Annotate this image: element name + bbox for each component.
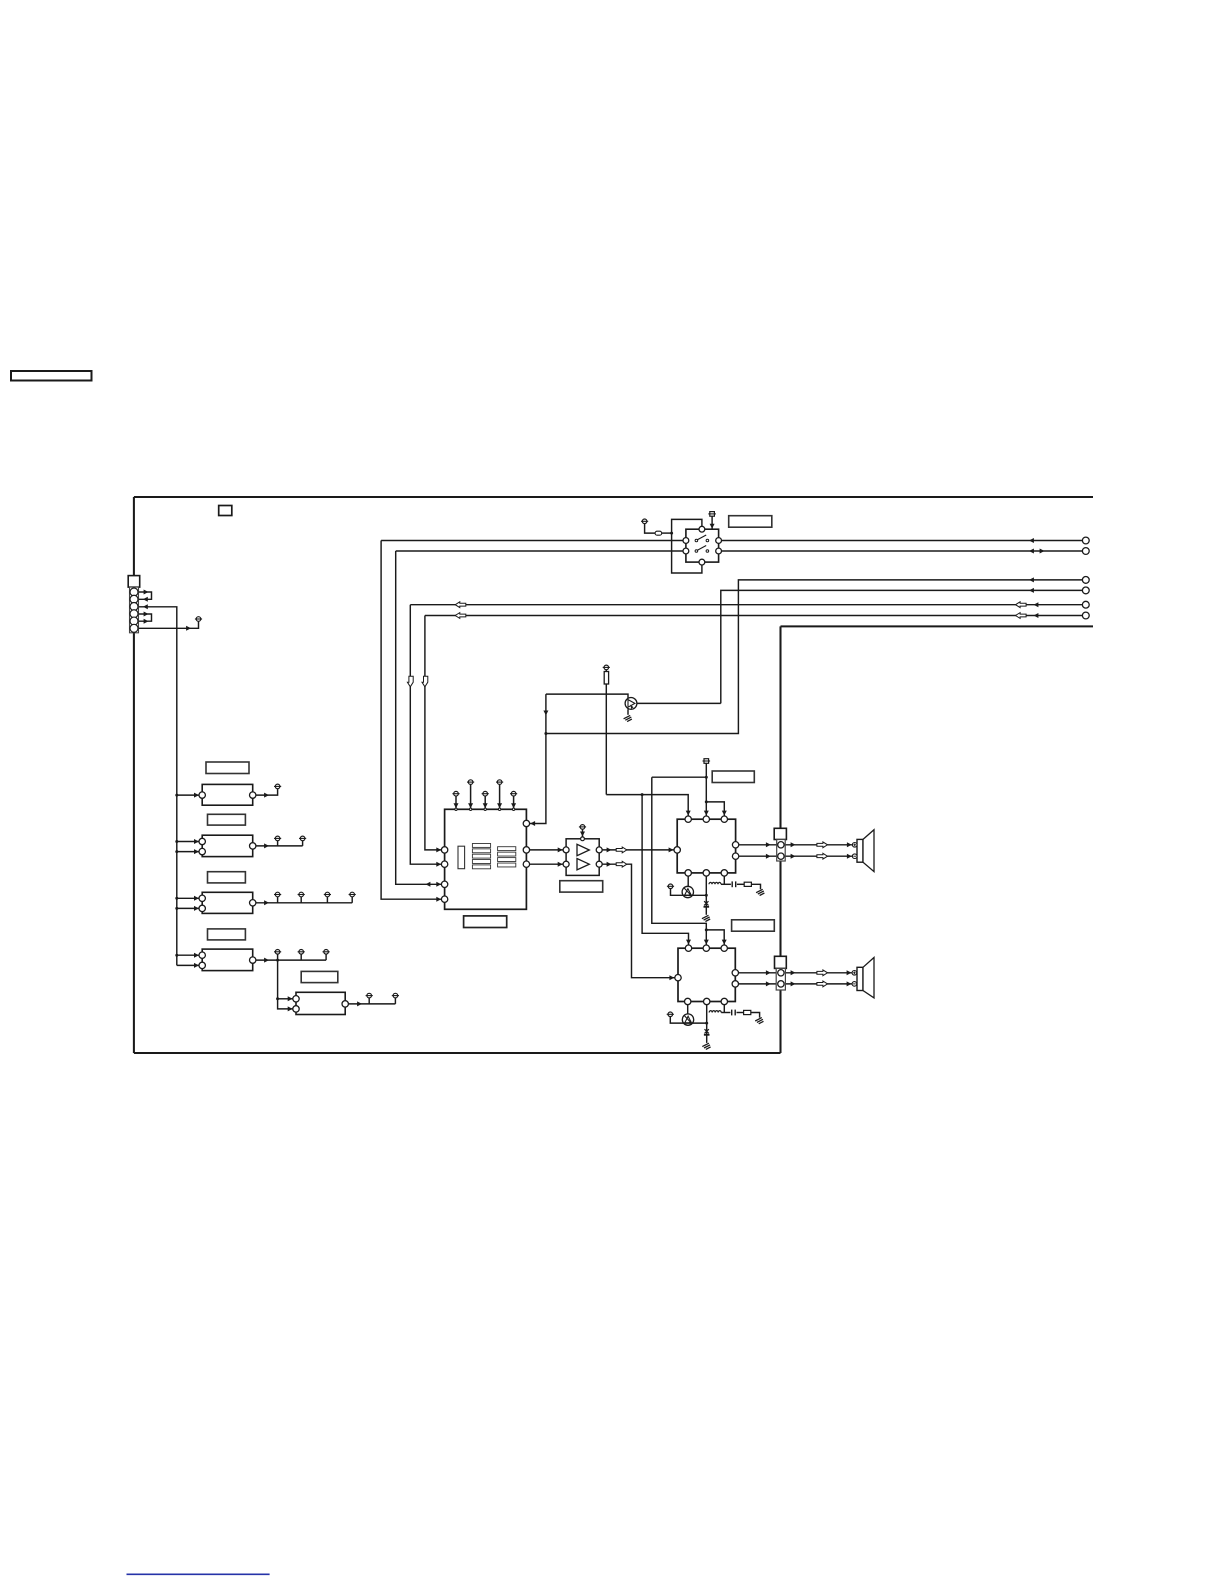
wire IC3 out+ to CN2 bbox=[739, 844, 778, 846]
wire line3 edge terminal to mute node bbox=[546, 580, 1083, 734]
wire TP10 stem bbox=[300, 954, 302, 960]
label box FL3 bbox=[208, 872, 246, 883]
wire FL4 output bbox=[255, 959, 326, 961]
variable resistor VR1 bbox=[682, 886, 693, 897]
wire FL4 out to FL5 input b bbox=[278, 960, 293, 1009]
wire TP3 stem bbox=[277, 841, 279, 846]
hollow flow arrows bbox=[455, 602, 466, 608]
wire C3 to R3 bbox=[737, 1012, 744, 1014]
wire TP13 stem bbox=[394, 998, 396, 1004]
wire B+ TP16 down to IC3 top-center pin bbox=[705, 763, 707, 816]
wire to FL5 input a bbox=[278, 998, 293, 1000]
test point IC1-b bbox=[467, 780, 474, 785]
wire IC4 out- to CN3 bbox=[739, 983, 778, 985]
test point TP7 bbox=[324, 892, 331, 897]
wire L1 to C1 bbox=[721, 883, 731, 885]
inductor L2 bbox=[709, 1011, 721, 1013]
wire CN2 to SP1 + bbox=[784, 844, 852, 846]
wire Q1 base from mute node bbox=[546, 694, 628, 698]
label box IC1 bbox=[464, 916, 507, 928]
wire line6 drop to IC1 pin1 bbox=[425, 616, 442, 850]
footer rule bbox=[127, 1573, 270, 1575]
wire line2 drop to IC1 pin3 bbox=[396, 551, 442, 884]
wire line5 drop to IC1 pin2 bbox=[410, 605, 441, 865]
wire R2 to ground bbox=[752, 884, 761, 889]
test point IC1-e bbox=[510, 791, 517, 796]
test point TP4 bbox=[299, 836, 306, 841]
power amp IC3 (channel 1) bbox=[674, 816, 739, 876]
wire branch to IC4 top-left pin bbox=[642, 795, 688, 945]
label box IC2 bbox=[560, 881, 603, 892]
test point IC1-c bbox=[482, 791, 489, 796]
test point TP10 bbox=[298, 950, 305, 955]
op-amp IC2 (dual buffer) bbox=[563, 837, 602, 876]
wire line6 to edge terminal bbox=[425, 615, 1083, 617]
inductor L1 bbox=[709, 882, 721, 884]
wire bus to FL2 input b bbox=[177, 851, 199, 853]
ground R2 bbox=[756, 889, 764, 895]
wire IC1 out L to IC2 in L bbox=[530, 849, 563, 851]
wire line2 left segment to SW1 bbox=[396, 550, 683, 552]
wire SW1 common frame loop bbox=[672, 519, 702, 573]
wire bus to FL4 input b bbox=[177, 964, 199, 966]
wire TP7 stem bbox=[326, 897, 328, 903]
wire bus to FL2 input a bbox=[177, 841, 199, 843]
wire Q1 emitter to ground bbox=[627, 709, 629, 715]
test point TP19 (VR2) bbox=[667, 1012, 674, 1017]
wire TP5 stem bbox=[277, 897, 279, 903]
test point TP11 bbox=[323, 950, 330, 955]
label box FL4 bbox=[208, 929, 246, 940]
wire CN1 pin6 to TP1 bbox=[138, 622, 198, 629]
capacitor C3 bbox=[732, 1010, 736, 1016]
wire TP14 to bead FB1 bbox=[645, 524, 656, 533]
filter block FL3 bbox=[199, 892, 256, 913]
board edge terminals (right) bbox=[1082, 537, 1089, 619]
ground C2 bbox=[702, 915, 710, 921]
wire C1 to R2 bbox=[737, 883, 744, 885]
power amp IC4 (channel 2) bbox=[675, 945, 739, 1005]
wire C2 to ground bbox=[705, 908, 707, 915]
ground C4 bbox=[702, 1043, 710, 1049]
wire IC1 out R to IC2 in R bbox=[530, 863, 563, 865]
test point TP14 (switch) bbox=[641, 519, 648, 524]
transistor Q1 (mute) bbox=[625, 698, 637, 710]
wire TP6 stem bbox=[300, 897, 302, 903]
test point TP5 bbox=[274, 892, 281, 897]
wire CN1 pin4-pin5 jumper bbox=[138, 614, 151, 621]
wire IC3 right pin down bbox=[723, 876, 725, 884]
wire CN3 to SP2 + bbox=[784, 972, 852, 974]
label box FL1 bbox=[206, 762, 249, 774]
test point TP9 bbox=[274, 950, 281, 955]
wire line2 SW1 to edge terminal bbox=[722, 550, 1083, 552]
wire Q1 collector to line4 bbox=[637, 702, 721, 704]
filter block FL4 bbox=[199, 949, 256, 971]
wire bus to FL4 input a bbox=[177, 954, 199, 956]
connector CN2 (speaker out ch1) bbox=[774, 828, 786, 861]
ground Q1 emitter bbox=[624, 715, 632, 721]
capacitor C1 bbox=[732, 881, 736, 887]
switch SW1 bbox=[683, 526, 721, 565]
wire TP8 stem bbox=[351, 897, 353, 903]
speaker SP1 bbox=[852, 830, 874, 872]
wire mute node to IC1 control pin bbox=[530, 694, 546, 823]
signal direction arrows bbox=[144, 590, 149, 595]
wire CN1 pin3 signal bus bbox=[138, 607, 176, 966]
resistor R2 bbox=[744, 882, 751, 886]
speaker SP2 bbox=[852, 958, 874, 998]
wire line1 SW1 to edge terminal bbox=[722, 540, 1083, 542]
test point TP17 (IC2 supply) bbox=[579, 825, 586, 830]
wire FL1 output to TP2 bbox=[255, 789, 277, 795]
wire TP17 to IC2 vcc pin bbox=[582, 829, 584, 837]
test point TP12 bbox=[366, 993, 373, 998]
test point TP3 bbox=[274, 836, 281, 841]
wire IC2 out L to IC3 input bbox=[602, 849, 674, 851]
wire CN3 to SP2 - bbox=[784, 983, 852, 985]
board outline bbox=[134, 497, 1093, 1053]
wire line5 to edge terminal bbox=[410, 604, 1082, 606]
test point TP1 bbox=[195, 617, 202, 622]
wire L2 to C3 bbox=[721, 1012, 730, 1014]
wire TP4 stem bbox=[302, 841, 304, 846]
wire line4 edge terminal to Q1 collector bbox=[721, 590, 1083, 703]
wire IC3 pin to VR1 bbox=[687, 876, 689, 886]
wire TP19 through VR2 to node bbox=[670, 1017, 706, 1024]
wire bus to FL1 input bbox=[177, 794, 199, 796]
label box SW1 bbox=[729, 516, 772, 528]
filter block FL2 bbox=[199, 835, 256, 856]
label box IC3 bbox=[712, 771, 754, 783]
op-amp U1 / IC1 signal processor bbox=[441, 808, 529, 909]
label box IC4 bbox=[732, 920, 775, 931]
wire C4 to ground bbox=[706, 1036, 708, 1043]
wire FL5 output bbox=[348, 1003, 395, 1005]
wire IC4 out+ to CN3 bbox=[739, 972, 778, 974]
wire TP11 stem bbox=[325, 954, 327, 960]
wire line1 left segment to SW1 bbox=[381, 540, 683, 542]
wire IC4 pin to VR2 bbox=[687, 1005, 689, 1014]
wire branch to IC3 top-right pin bbox=[706, 802, 724, 816]
resistor R1 bbox=[604, 672, 608, 685]
power source B+ (switch) bbox=[708, 512, 716, 517]
resistor R3 bbox=[744, 1010, 751, 1014]
wire R1 down bbox=[605, 684, 607, 795]
ferrite bead FB1 bbox=[655, 531, 662, 535]
wire IC3 out- to CN2 bbox=[739, 855, 778, 857]
wire IC4 right pin down bbox=[723, 1005, 725, 1013]
wire TP15 to R1 bbox=[605, 670, 607, 672]
label box FL2 bbox=[208, 814, 246, 825]
board designation square bbox=[219, 506, 232, 516]
variable resistor VR2 bbox=[682, 1014, 693, 1025]
connector CN3 (speaker out ch2) bbox=[775, 956, 787, 990]
wire bus to FL3 input b bbox=[177, 907, 199, 909]
wire branch to IC4 top-right pin bbox=[706, 930, 724, 945]
wire R3 to ground bbox=[751, 1013, 760, 1018]
wire FB1 to SW1 frame bbox=[662, 532, 672, 534]
wire CN1 pin1-pin2 jumper bbox=[138, 592, 151, 599]
wire R1 to IC3 top-left pin bbox=[606, 795, 688, 816]
wire line1 drop to IC1 pin4 bbox=[381, 541, 442, 900]
wire IC2 out R to IC4 input bbox=[602, 864, 675, 978]
wire branch to IC4 top-center pin bbox=[652, 777, 707, 945]
capacitor C4 (to ground) bbox=[704, 1029, 710, 1035]
wire IC3 center pin down through C2 bbox=[705, 876, 707, 906]
wire CN2 to SP1 - bbox=[784, 855, 852, 857]
test point TP2 bbox=[274, 784, 281, 789]
wire TP12 stem bbox=[368, 998, 370, 1004]
ground R3 bbox=[755, 1018, 763, 1024]
filter block FL5 bbox=[293, 992, 349, 1014]
test point IC1-a bbox=[452, 791, 459, 796]
wire FL2 output bbox=[255, 845, 302, 847]
test point TP8 bbox=[349, 892, 356, 897]
label box FL5 bbox=[301, 971, 338, 982]
wire B+ feed into SW1 bbox=[711, 516, 713, 529]
junction dots bbox=[175, 794, 178, 797]
wire branch at 777 left bbox=[652, 776, 707, 778]
wires IC1 top pin feeds bbox=[455, 796, 457, 808]
wire TP18 through VR1 to node bbox=[671, 889, 707, 896]
wire FL3 output bbox=[255, 902, 352, 904]
wire IC4 center pin down through C4 bbox=[706, 1005, 708, 1035]
filter block FL1 bbox=[199, 784, 256, 805]
test point TP15 (R1) bbox=[603, 665, 610, 670]
wire bus to FL3 input a bbox=[177, 897, 199, 899]
test point TP18 (VR1) bbox=[667, 884, 674, 889]
test point IC1-d bbox=[496, 780, 503, 785]
wire TP9 stem bbox=[277, 954, 279, 960]
header label box (empty) bbox=[11, 371, 92, 381]
connector CN1 bbox=[128, 576, 140, 633]
test point TP6 bbox=[298, 892, 305, 897]
power source B+ (IC3) bbox=[703, 759, 711, 764]
capacitor C2 (to ground) bbox=[704, 901, 710, 907]
test point TP13 bbox=[392, 993, 399, 998]
